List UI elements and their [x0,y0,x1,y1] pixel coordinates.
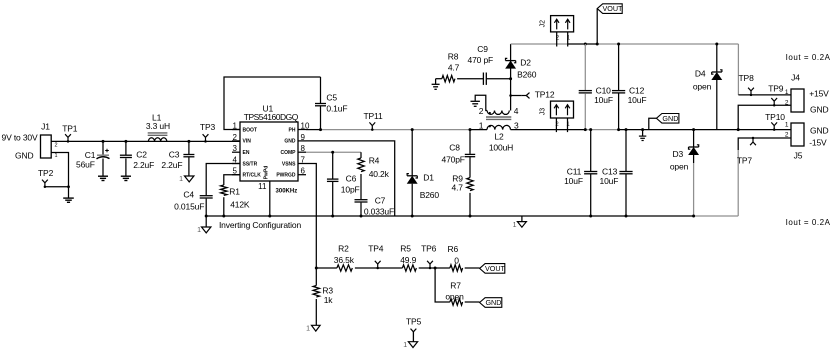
resistor R8 [442,76,455,82]
junction C1/VIN [102,140,105,143]
capacitor C9 [483,73,486,85]
diode D4 (open) [712,44,722,130]
svg-text:C11: C11 [567,166,582,176]
connector J4 [785,73,804,112]
J4 label +15V [809,88,829,98]
capacitor C11 [584,130,597,216]
C3 labels [161,149,182,170]
L2 labels [489,132,513,153]
wire L2 pin2 to ground [475,95,487,110]
net flag VOUT (feedback) [480,264,506,274]
svg-text:VSNS: VSNS [282,161,296,167]
svg-text:TP11: TP11 [363,111,383,121]
svg-text:1: 1 [403,342,407,349]
svg-text:C12: C12 [629,85,645,95]
C11 labels [564,166,583,186]
wire GND pin to rail [306,141,395,216]
C1 labels [76,150,96,170]
svg-text:-15V: -15V [809,138,827,148]
ground (earth) below C2 [121,176,131,180]
svg-text:GND: GND [662,114,678,123]
svg-text:GND: GND [810,125,828,135]
test point TP8 [739,73,755,96]
wire SS/TR to C4 [206,164,240,196]
svg-text:9V to 30V: 9V to 30V [2,133,38,143]
svg-text:R7: R7 [450,281,461,291]
wire output GND rail (gray seg) [585,129,618,131]
wire J4 pin1 (+15V) [738,94,791,96]
junction C9/D2 [509,77,512,80]
wire J2 pin1 drop [567,32,569,47]
C12 labels [628,85,647,105]
svg-text:1: 1 [479,121,484,131]
junction C5/PH [319,128,322,131]
R6 labels [448,244,460,266]
D4 labels [693,68,712,91]
svg-text:0.033uF: 0.033uF [364,207,394,217]
test point TP11 [363,111,383,131]
capacitor C3 [183,141,194,176]
svg-text:1: 1 [306,325,310,332]
svg-text:10uF: 10uF [564,176,583,186]
svg-text:C7: C7 [375,195,386,205]
svg-text:4.7: 4.7 [448,63,460,73]
svg-text:PWRGD: PWRGD [276,173,296,179]
svg-text:C5: C5 [326,92,337,102]
ground net 1 (triangle) on gnd rail [513,216,527,229]
wire COMP (pin8 to R4) [306,151,361,153]
svg-text:0.1uF: 0.1uF [326,104,347,114]
svg-text:C1: C1 [85,150,96,160]
svg-text:4.7: 4.7 [452,182,464,192]
junction pin11/gnd rail [268,215,271,218]
svg-text:L2: L2 [494,132,504,142]
svg-text:C2: C2 [136,149,147,159]
L1 labels [146,112,170,131]
svg-text:R6: R6 [448,244,459,254]
svg-text:J5: J5 [794,150,803,160]
svg-text:open: open [670,161,689,171]
test point TP10 [765,112,785,131]
junction earth/GND rail [641,128,644,131]
C7 labels [364,195,394,216]
svg-text:TP4: TP4 [368,244,384,254]
connector J3 [540,101,574,128]
svg-text:2.2uF: 2.2uF [133,160,154,170]
svg-text:GND: GND [810,104,828,114]
wire +15V rail (black seg) [568,43,598,45]
wire L2 pin4 / D2 branch [510,44,512,111]
svg-text:PH: PH [289,127,296,133]
svg-text:D1: D1 [423,173,434,183]
svg-text:1: 1 [785,122,789,129]
svg-text:PwPd: PwPd [264,166,270,180]
inductor L1 [148,133,168,142]
wire PH rail (gray part) [322,129,470,131]
junction C7/gnd rail [360,215,363,218]
svg-text:1: 1 [55,153,58,159]
C4 labels [174,189,204,211]
svg-text:RT/CLK: RT/CLK [243,173,262,179]
wire feedback row [316,267,479,269]
resistor R6 [450,265,463,271]
junction C13/-15V rail [625,215,628,218]
R9 labels [452,173,464,192]
junction R6/R7 branch [434,267,437,270]
wire J3 pin1 drop [567,118,569,132]
svg-text:GND: GND [485,298,501,307]
wire analog ground rail [206,215,738,217]
svg-text:11: 11 [258,182,267,191]
connector J5 [785,122,804,161]
wire J2 pin2 drop [556,32,558,47]
capacitor C6 [327,152,339,216]
svg-text:0.015uF: 0.015uF [174,202,204,212]
svg-text:40.2k: 40.2k [369,169,390,179]
junction C13/GND rail [625,128,628,131]
svg-text:2.2uF: 2.2uF [161,160,182,170]
D3 labels [670,149,689,171]
wire J4 pin2 (GND) [738,105,791,129]
capacitor C4 [200,196,213,216]
test point TP1 [62,123,78,142]
svg-text:TPS54160DGQ: TPS54160DGQ [244,112,299,122]
junction C12/GND rail [617,128,620,131]
svg-text:TP10: TP10 [765,112,785,122]
junction D1/PH [411,128,414,131]
IC U1 TPS54160DGQ [232,121,310,216]
svg-text:J2: J2 [540,20,547,28]
test point TP2 [38,168,54,188]
svg-text:GND: GND [284,139,296,145]
wire J1 pin1 to ground [51,153,68,199]
wire +15V rail drop to J4 [737,44,739,95]
svg-text:VIN: VIN [243,139,252,145]
junction D3/GND rail [692,128,695,131]
junction C11/-15V rail [589,215,592,218]
connector J2 [540,16,574,42]
wire J3 pin2 drop [555,118,557,132]
label Iout top [786,53,831,62]
label Iout bottom [786,218,831,227]
ground net 1 (triangle) below TP5 [403,342,417,349]
svg-text:8: 8 [301,144,306,153]
svg-text:49.9: 49.9 [400,255,416,265]
junction C10/GND rail [584,128,587,131]
svg-text:TP8: TP8 [739,73,755,83]
svg-text:10pF: 10pF [341,184,360,194]
junction D1/gnd rail [411,215,414,218]
capacitor C2 [120,141,132,176]
ground (earth) at R8 [432,84,440,89]
wire RT/CLK to R1 [224,175,240,185]
svg-text:1: 1 [197,227,201,234]
svg-text:J1: J1 [41,121,50,131]
svg-text:D3: D3 [673,149,684,159]
R8 labels [448,52,460,73]
junction C10/+15V rail [584,43,587,46]
svg-text:R5: R5 [400,244,411,254]
svg-text:10uF: 10uF [594,95,613,105]
R5 labels [400,244,416,265]
svg-text:36.5k: 36.5k [334,255,355,265]
test point TP9 [768,84,784,107]
svg-text:2: 2 [479,106,484,116]
U1 labels [244,103,299,122]
test point TP3 [200,122,216,143]
wire J5 pin2 (-15V) [738,138,791,216]
inductor L2 (coupled) [479,106,519,131]
R1 labels [229,186,250,209]
C9 labels [468,44,494,65]
svg-text:SS/TR: SS/TR [243,161,258,167]
resistor R5 [402,265,416,271]
resistor R9 [467,178,473,216]
svg-text:C6: C6 [346,174,357,184]
svg-text:0: 0 [454,255,459,265]
svg-text:R3: R3 [322,285,333,295]
capacitor C5 [315,77,326,130]
J5 label GND [810,125,828,135]
svg-text:3.3 uH: 3.3 uH [146,121,170,131]
svg-text:2: 2 [233,133,238,142]
svg-text:D2: D2 [520,58,531,68]
svg-text:open: open [693,82,712,92]
junction R9/gnd rail [469,215,472,218]
svg-text:TP5: TP5 [406,317,422,327]
resistor R7 [450,299,463,305]
svg-text:B260: B260 [420,190,440,200]
C10 labels [594,85,613,105]
svg-text:open: open [445,292,464,302]
diode D1 (B260) [407,130,417,216]
svg-text:TP9: TP9 [768,84,784,94]
ground net 1 (triangle) below C3 [179,176,194,183]
capacitor C12 [612,44,625,130]
wire output GND rail [511,129,739,131]
test point TP5 [406,317,422,342]
C2 labels [133,149,154,170]
svg-text:2: 2 [785,100,789,107]
svg-text:1: 1 [513,222,517,229]
junction C11/GND rail [589,128,592,131]
svg-text:C13: C13 [602,166,618,176]
svg-text:D4: D4 [695,68,706,78]
svg-text:C8: C8 [449,142,460,152]
svg-text:TP6: TP6 [421,244,437,254]
svg-text:7: 7 [301,155,306,164]
label Inverting Configuration [219,220,301,230]
R7 labels [445,281,464,302]
junction C12/+15V rail [617,43,620,46]
wire R7 branch [435,268,480,302]
wire VIN rail (J1 pin2 to U1 VIN) [51,140,240,142]
wire BOOT loop (pin1 to C5) [224,77,321,130]
junction R1/gnd rail [222,215,225,218]
svg-text:C9: C9 [477,44,488,54]
junction C8/PH [469,128,472,131]
svg-text:C10: C10 [596,85,612,95]
D1 labels [420,173,440,200]
J5 label -15V [809,138,827,148]
svg-text:412K: 412K [230,200,250,210]
capacitor C1 (electrolytic) [97,141,110,176]
R2 labels [334,244,355,265]
resistor R4 [358,152,364,199]
C6 labels [341,174,360,195]
junction J4 GND branch [737,128,740,131]
diode D2 (B260) [506,58,516,68]
svg-text:2: 2 [785,131,789,138]
C13 labels [600,166,619,186]
svg-text:R4: R4 [369,155,380,165]
C5 labels [326,92,347,113]
junction VOUT/+15V rail [596,43,599,46]
wire TP2 stub [45,185,70,188]
svg-text:COMP: COMP [281,150,297,156]
svg-text:100uH: 100uH [489,142,513,152]
svg-text:6: 6 [301,167,306,176]
capacitor C8 [465,130,475,178]
ground (earth) at L2 pin2 [471,101,480,106]
ground net 1 (triangle) below C4 [197,216,211,234]
ground (earth) below J1 [63,198,74,202]
svg-text:VOUT: VOUT [602,4,623,13]
svg-text:J4: J4 [791,73,800,83]
svg-text:10uF: 10uF [600,176,619,186]
wire snubber (gnd-R8-C9-D2) [436,78,511,80]
wire PH rail (black part) [306,129,322,131]
net flag GND (feedback) [480,298,502,308]
resistor R2 [337,265,352,271]
ground net 1 (triangle) below R3 [306,325,320,332]
svg-text:TP12: TP12 [535,89,555,99]
svg-text:10uF: 10uF [628,95,647,105]
svg-text:470 pF: 470 pF [468,55,494,65]
connector J1 [41,121,58,159]
wire R8 to ground [435,79,437,85]
junction D4/+15V rail [715,43,718,46]
resistor R1 [221,185,227,216]
diode D3 (open) [689,130,699,216]
svg-text:1: 1 [179,176,183,183]
svg-text:2: 2 [55,142,58,148]
svg-text:C3: C3 [169,149,180,159]
net flag VOUT (top) [597,4,623,44]
J1 label 9V to 30V [2,133,38,143]
wire +15V rail (gray) [511,43,739,45]
svg-text:TP2: TP2 [38,168,54,178]
junction C4/gnd rail [205,215,208,218]
J1 label GND [15,151,33,161]
svg-text:GND: GND [15,151,33,161]
svg-text:+15V: +15V [809,88,829,98]
capacitor C13 [619,130,632,216]
junction D3/-15V rail [692,215,695,218]
svg-text:EN: EN [243,150,250,156]
J4 label GND [810,104,828,114]
test point TP4 [368,244,384,270]
svg-text:TP3: TP3 [200,122,216,132]
R4 labels [369,155,390,179]
svg-text:B260: B260 [517,70,537,80]
svg-text:R1: R1 [229,186,240,196]
test point TP6 [421,244,437,270]
svg-text:300KHz: 300KHz [276,189,298,195]
R3 labels [322,285,333,305]
junction C3/VIN [187,140,190,143]
svg-text:VOUT: VOUT [485,264,506,273]
svg-text:1: 1 [785,89,789,96]
ground (earth) below C1 [98,176,108,180]
svg-text:3: 3 [233,144,238,153]
junction feedback node [315,267,318,270]
svg-text:1k: 1k [324,295,334,305]
svg-text:Iout = 0.2A: Iout = 0.2A [786,218,831,227]
svg-text:R8: R8 [448,52,459,62]
ground (earth) on GND rail [639,130,646,141]
junction C6/COMP [331,151,334,154]
svg-text:56uF: 56uF [76,159,95,169]
capacitor C10 [579,44,592,130]
svg-text:TP7: TP7 [737,155,753,165]
svg-text:BOOT: BOOT [243,127,257,133]
resistor R3 [313,268,319,325]
svg-text:J3: J3 [540,108,547,116]
wire VSNS to feedback divider [306,164,316,269]
svg-text:C4: C4 [183,189,194,199]
junction C2/VIN [124,140,127,143]
svg-text:Inverting Configuration: Inverting Configuration [219,220,301,230]
svg-text:9: 9 [301,133,306,142]
svg-text:TP1: TP1 [62,123,78,133]
svg-text:Iout = 0.2A: Iout = 0.2A [786,53,831,62]
wire J5 pin1 (GND) [738,129,791,131]
C8 labels [442,142,465,164]
svg-text:470pF: 470pF [442,155,465,165]
net flag GND (mid) [649,114,679,130]
test point TP12 [509,89,555,99]
svg-text:R2: R2 [338,244,349,254]
D2 labels [517,58,537,80]
junction C6/gnd rail [331,215,334,218]
svg-text:4: 4 [514,106,519,116]
wire PH rail to L2 [470,129,487,131]
test point TP7 [737,137,756,166]
capacitor C7 [355,200,368,216]
